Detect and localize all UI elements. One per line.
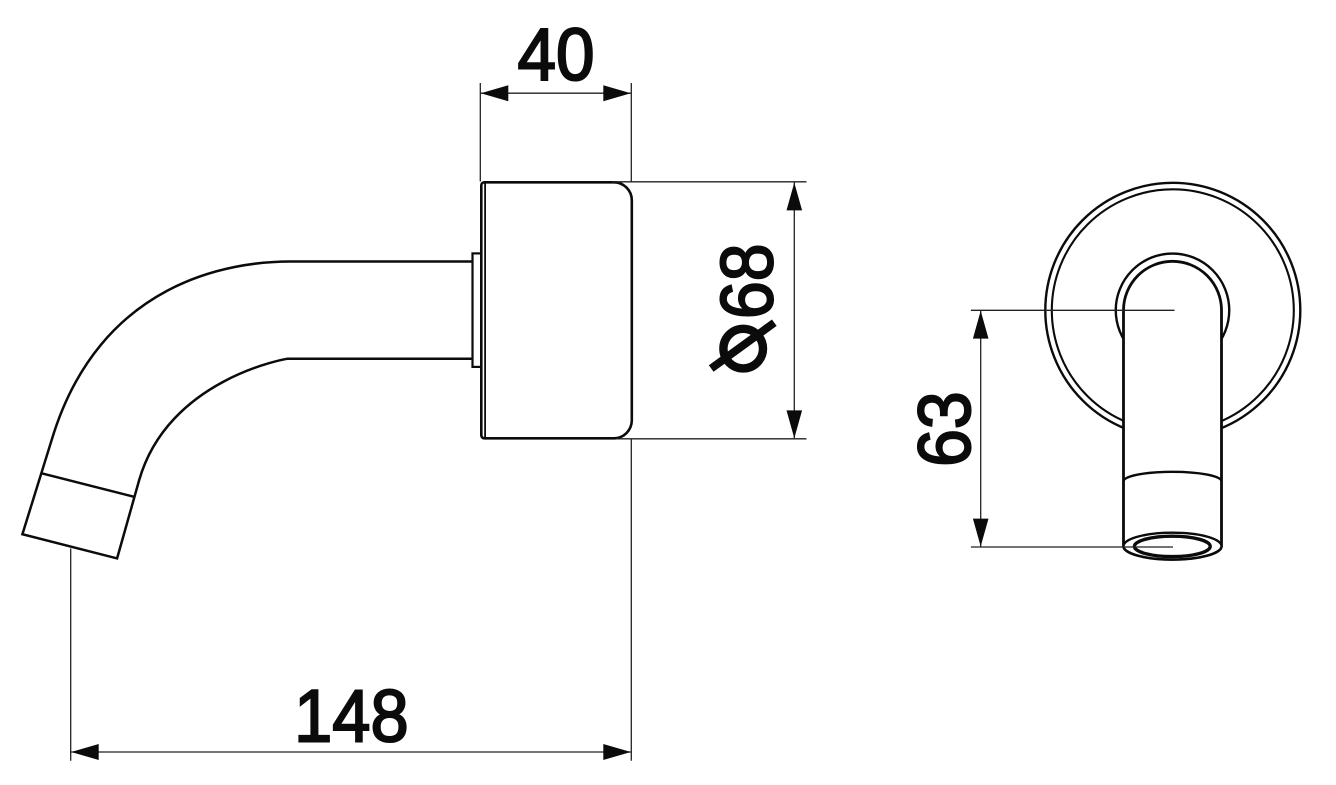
dimension 63: top arrowhead (973, 311, 989, 339)
dimension 63: bottom arrowhead (973, 519, 989, 547)
aerator seam line (side view) (41, 473, 135, 497)
dimension 148: extension lines (70, 549, 72, 761)
svg-text:63: 63 (903, 391, 986, 467)
collar (side view) (473, 253, 482, 367)
dimension 40: right arrowhead (603, 85, 631, 101)
dimension 148: dimension line (71, 751, 632, 753)
svg-text:68: 68 (706, 244, 789, 320)
front view: outlet outer ellipse (1124, 533, 1222, 560)
dimension 40: extension lines (479, 83, 481, 182)
dimension O68: extension lines (612, 181, 807, 183)
front view: outlet inner ellipse (1134, 536, 1210, 556)
front view: flange outer circle (1045, 183, 1300, 438)
front view: tube (1124, 261, 1222, 559)
dimension 40: left arrowhead (481, 85, 509, 101)
front view: collar circle (1116, 254, 1230, 368)
dimension O68: diameter symbol circle (723, 329, 763, 369)
dimension O68: bottom arrowhead (787, 410, 803, 438)
front view: flange rim circle (1052, 189, 1294, 431)
dimension 148: left arrowhead (71, 744, 99, 760)
dimension O68: dimension line (793, 182, 795, 438)
dimension O68: top arrowhead (787, 183, 803, 211)
dimension 40: dimension line (480, 92, 631, 94)
flange face inner line (side view) (484, 184, 486, 438)
front view: aerator seam arc (1124, 472, 1222, 481)
svg-text:148: 148 (294, 675, 409, 758)
dimension 148: right arrowhead (603, 744, 631, 760)
dimension O68: diameter symbol slash (711, 323, 774, 369)
spout tube (side view) (22, 262, 473, 559)
svg-text:40: 40 (518, 13, 595, 96)
dimension 63: dimension line (980, 311, 982, 547)
flange body (side view) (481, 182, 632, 438)
dimension 63: extension lines (971, 309, 1175, 311)
